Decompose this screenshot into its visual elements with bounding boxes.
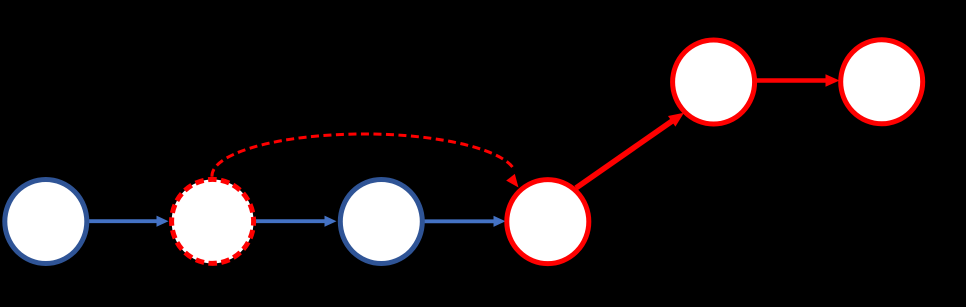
node 6 (red circle) [841,40,923,124]
wire arrow 1→2 (blue) [88,216,169,227]
node 2 (red dashed circle) [172,179,254,263]
wire arrow 2→3 (blue) [255,216,337,227]
wire arrow 5→6 (red) [756,74,840,87]
node 1 (blue circle) [5,180,87,264]
dashed feedback arc 2→4 (red) [212,134,519,188]
node 3 (blue circle) [340,180,422,264]
wire arrow 4→5 (red diagonal) [576,113,684,188]
wire arrow 3→4 (blue) [424,216,506,227]
node 5 (red circle) [673,40,755,124]
node 4 (red circle) [507,180,589,264]
